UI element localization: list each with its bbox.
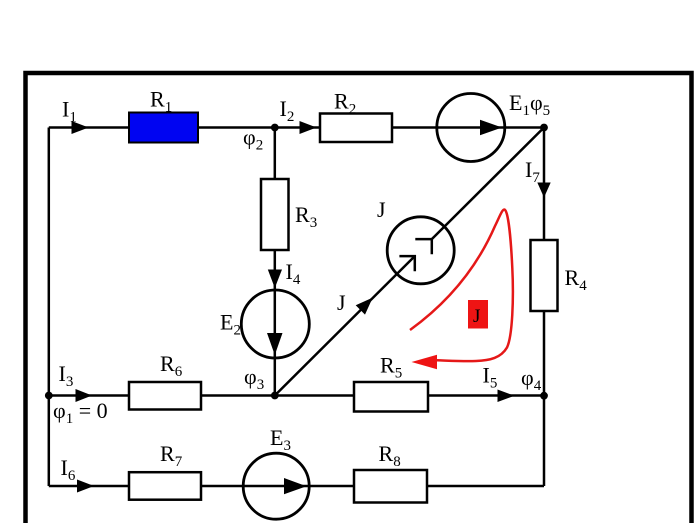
source E2 bbox=[241, 290, 309, 358]
node phi2 bbox=[271, 124, 279, 132]
resistor R2 bbox=[320, 114, 392, 143]
arrow I6 bbox=[77, 480, 94, 493]
wire top horizontal bbox=[49, 126, 544, 129]
wire right vertical bbox=[543, 128, 546, 487]
resistor R6 bbox=[129, 382, 201, 410]
current source J circle bbox=[387, 217, 454, 284]
node phi4 bbox=[540, 392, 548, 400]
wire bottom horizontal bbox=[49, 485, 544, 488]
red contour arrowhead bbox=[412, 355, 438, 369]
arrow I3 bbox=[76, 389, 93, 402]
source E1 bbox=[437, 94, 505, 162]
source E1 arrow bbox=[480, 120, 502, 135]
arrow I4 bbox=[268, 270, 282, 289]
svg-text:J: J bbox=[337, 290, 346, 315]
arrow I2 bbox=[300, 121, 317, 134]
node phi3 bbox=[271, 392, 279, 400]
resistor R3 bbox=[261, 179, 289, 250]
arrow I7 bbox=[537, 183, 550, 198]
source E3 arrow bbox=[284, 478, 307, 494]
red contour curve bbox=[410, 210, 513, 362]
arrow I1 bbox=[72, 121, 89, 134]
svg-text:J: J bbox=[377, 197, 386, 222]
node phi5 bbox=[540, 124, 548, 132]
resistor R4 bbox=[531, 240, 558, 311]
wire R3-E2 branch vertical bbox=[274, 128, 277, 396]
current source J upper arrowhead bbox=[415, 239, 432, 254]
arrow I5 bbox=[498, 390, 515, 403]
resistor R8 bbox=[354, 470, 427, 503]
svg-text:φ1 = 0: φ1 = 0 bbox=[53, 398, 108, 427]
resistor R5 bbox=[354, 382, 428, 412]
wire diagonal upper segment bbox=[432, 128, 544, 240]
source E2 arrow bbox=[267, 333, 283, 355]
node phi1 bbox=[45, 392, 53, 400]
wire middle horizontal bbox=[49, 394, 544, 397]
current source J lower arrowhead bbox=[399, 256, 414, 271]
source E3 bbox=[243, 453, 309, 519]
wire diagonal lower segment bbox=[275, 256, 415, 395]
wire left vertical bbox=[48, 128, 51, 487]
arrow J on diagonal bbox=[356, 298, 373, 315]
svg-text:J: J bbox=[473, 306, 480, 327]
resistor R1 bbox=[129, 113, 198, 143]
red square J marker bbox=[468, 300, 488, 329]
resistor R7 bbox=[129, 472, 201, 500]
